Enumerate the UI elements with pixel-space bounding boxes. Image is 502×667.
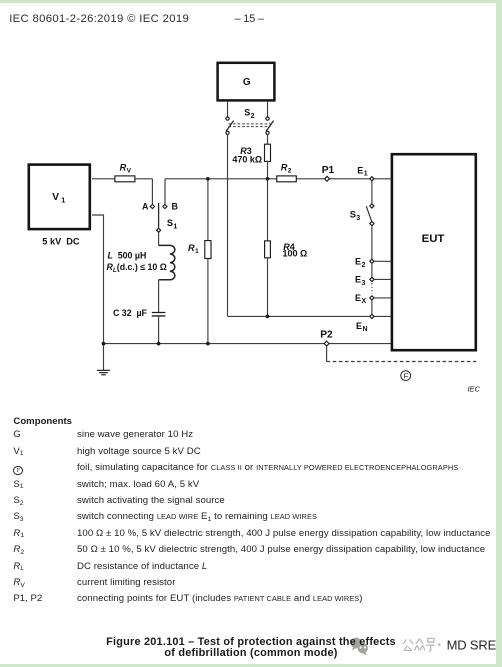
svg-text:3: 3 xyxy=(362,280,366,287)
wire B riser xyxy=(164,179,166,205)
switch S2 upper contact left xyxy=(226,117,229,120)
junction R1 bottom rail xyxy=(206,342,210,346)
wire EX stub to EUT xyxy=(374,297,391,299)
green page border bottom xyxy=(0,664,502,667)
ground xyxy=(97,370,110,374)
svg-text:2: 2 xyxy=(362,262,366,269)
junction V1/ground on bottom rail xyxy=(102,342,106,346)
svg-text:A: A xyxy=(142,201,149,211)
svg-text:E: E xyxy=(357,165,363,175)
svg-text:MD SRE: MD SRE xyxy=(447,637,497,652)
wire rail to R4 xyxy=(267,179,269,241)
svg-text:E: E xyxy=(355,275,361,285)
svg-text:IEC: IEC xyxy=(468,384,481,393)
svg-text:V: V xyxy=(52,192,59,203)
wire to ground xyxy=(103,344,105,371)
switch S3 upper contact xyxy=(370,204,374,208)
svg-text:G: G xyxy=(243,77,251,88)
svg-text:E: E xyxy=(356,321,362,331)
wire G right to S2 xyxy=(267,102,269,117)
wire S3 to E2 xyxy=(371,226,373,260)
watermark xyxy=(0,637,502,659)
node B xyxy=(163,204,167,208)
wire E1 to S3 xyxy=(371,181,373,204)
watermark xyxy=(340,628,502,662)
inductor L xyxy=(159,245,175,279)
svg-text:S: S xyxy=(244,108,250,118)
svg-text:1: 1 xyxy=(173,223,177,230)
wire S2 right pole to R3 xyxy=(267,134,269,144)
wire R1 branch vertical xyxy=(207,179,209,344)
resistor R3 xyxy=(265,144,271,161)
generator G box xyxy=(218,63,275,101)
S2 mechanical coupling dashed xyxy=(229,124,271,127)
svg-text:R: R xyxy=(120,162,127,172)
wire E3 stub to EUT xyxy=(374,278,391,280)
resistor R1 xyxy=(205,241,211,259)
capacitor C plates xyxy=(152,313,166,316)
switch S2 lower contact right xyxy=(266,131,269,134)
wire EX to EN xyxy=(371,300,373,314)
components list xyxy=(13,417,72,428)
wire E3 to EX dotted xyxy=(371,283,373,294)
node A xyxy=(150,204,154,208)
wire E2 to E3 xyxy=(371,263,373,277)
resistor R4 xyxy=(265,241,271,258)
svg-text:1: 1 xyxy=(364,171,368,178)
wire S2 left pole down xyxy=(227,134,229,316)
EUT box xyxy=(392,154,476,350)
green page border right xyxy=(496,0,502,667)
svg-text:E: E xyxy=(355,256,361,266)
svg-text:EUT: EUT xyxy=(422,233,445,245)
switch S3 blade xyxy=(366,206,371,221)
foil dashed line xyxy=(327,361,477,363)
wire R3 to rail xyxy=(267,161,269,178)
green page border top xyxy=(0,0,502,3)
svg-text:C 32 µF: C 32 µF xyxy=(113,308,148,318)
switch S2 blade right xyxy=(266,121,273,132)
svg-text:3: 3 xyxy=(356,215,360,222)
node P2 xyxy=(324,341,329,346)
junction R1 top rail xyxy=(206,177,210,181)
svg-text:R: R xyxy=(188,243,195,253)
svg-text:5 kV DC: 5 kV DC xyxy=(42,237,80,247)
wire inductor to capacitor xyxy=(158,280,160,312)
junction R4 on EN line xyxy=(266,315,270,319)
svg-text:1: 1 xyxy=(195,248,199,255)
wire down to node A xyxy=(151,179,153,205)
svg-text:2: 2 xyxy=(251,113,255,120)
header page number xyxy=(235,13,264,25)
svg-text:S: S xyxy=(350,210,356,220)
header left xyxy=(9,13,189,25)
wire EN line to EUT xyxy=(228,315,391,317)
svg-text:P2: P2 xyxy=(320,330,333,341)
node P1 xyxy=(325,176,330,181)
svg-text:RL(d.c.) ≤ 10 Ω: RL(d.c.) ≤ 10 Ω xyxy=(107,262,167,274)
switch S2 blade left xyxy=(226,121,233,132)
resistor R2 xyxy=(277,176,297,182)
svg-text:B: B xyxy=(172,201,178,211)
svg-text:E: E xyxy=(355,293,361,303)
node EX xyxy=(370,296,374,300)
svg-text:L 500 µH: L 500 µH xyxy=(108,251,147,261)
junction capacitor on bottom rail xyxy=(157,342,161,346)
junction R3/R4 branch on top rail xyxy=(266,177,270,181)
svg-text:100 Ω: 100 Ω xyxy=(283,248,308,258)
resistor Rv xyxy=(115,176,135,182)
svg-text:S: S xyxy=(167,218,173,228)
voltage source V1 xyxy=(29,165,90,230)
wire bottom rail xyxy=(104,343,391,345)
svg-text:R: R xyxy=(281,162,288,172)
svg-text:N: N xyxy=(363,326,368,333)
svg-text:P1: P1 xyxy=(322,165,335,176)
svg-text:1: 1 xyxy=(61,195,65,204)
svg-text:F: F xyxy=(404,372,409,381)
wire top rail from B corner to EUT xyxy=(165,178,391,180)
watermark chat-bubble icon (behind caption) xyxy=(345,632,375,658)
switch S1 pole contact xyxy=(157,228,161,232)
node E1 xyxy=(370,177,374,181)
wire V1 to Rv xyxy=(92,178,115,180)
svg-text:X: X xyxy=(362,298,367,305)
svg-text:470 kΩ: 470 kΩ xyxy=(232,154,262,164)
wire E2 stub to EUT xyxy=(374,260,391,262)
node E2 xyxy=(370,259,374,263)
wire Rv to corner above A xyxy=(135,178,153,180)
switch S3 lower contact xyxy=(370,222,374,226)
wire S1 to inductor xyxy=(158,232,160,245)
svg-text:2: 2 xyxy=(288,168,292,175)
switch S2 lower contact left xyxy=(226,131,229,134)
foil F circle xyxy=(401,371,411,381)
node E3 xyxy=(370,277,374,281)
wire G left to S2 xyxy=(227,102,229,117)
svg-text:V: V xyxy=(127,167,132,174)
switch S2 upper contact right xyxy=(266,117,269,120)
node EN xyxy=(370,314,374,318)
switch S1 blade xyxy=(158,203,160,228)
wire V1 lower terminal xyxy=(92,215,104,344)
wire P2 down to foil xyxy=(326,346,328,361)
wire capacitor to bottom rail xyxy=(158,316,160,344)
wire R4 to EN line xyxy=(267,258,269,317)
